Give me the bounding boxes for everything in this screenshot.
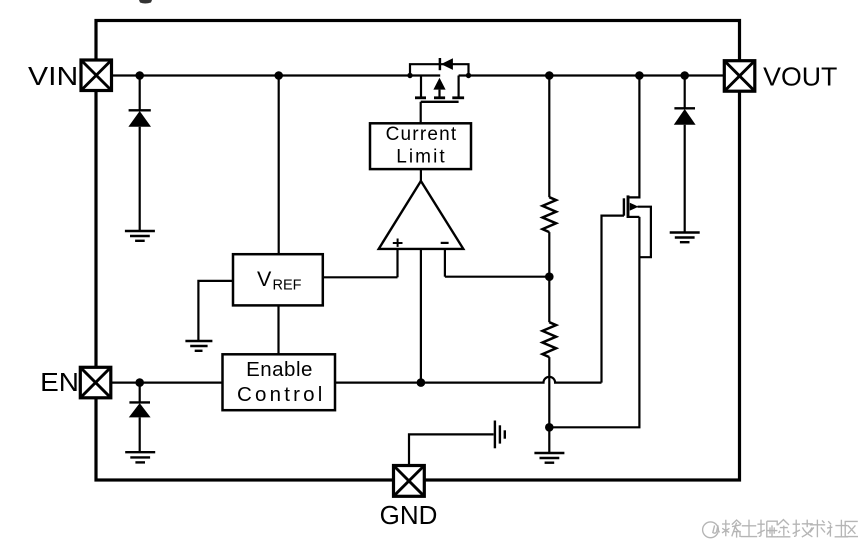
- svg-text:Control: Control: [237, 383, 326, 406]
- resistor R2 (lower feedback): [543, 322, 557, 357]
- svg-text:VOUT: VOUT: [763, 61, 837, 91]
- char 术: [810, 520, 825, 538]
- wire: divider bottom to ground: [548, 357, 550, 453]
- watermark @稀土掘金技术社区: [703, 520, 858, 538]
- node: EN-diode junction: [135, 378, 144, 387]
- pin VOUT (pad symbol): [724, 61, 755, 91]
- node: NMOS drain junction: [635, 71, 644, 80]
- diode D1 (VIN ESD): wire: [139, 76, 141, 111]
- wire: between resistors: [548, 232, 550, 322]
- wire: - input to feedback node: [445, 276, 549, 278]
- op-amp U2 (error amplifier): [379, 181, 464, 249]
- char 技: [793, 520, 813, 537]
- pin GND (pad symbol): [394, 466, 425, 497]
- block U3: VREF box: [233, 254, 323, 305]
- diode D2 triangle: [674, 109, 696, 125]
- char 稀: [722, 520, 741, 538]
- wire: divider top: [548, 76, 550, 198]
- transistor Q2 channel bar: [627, 195, 630, 218]
- svg-text:Limit: Limit: [396, 146, 447, 167]
- wire: op-amp - input: [444, 249, 446, 277]
- wire: Q2 body tie to source: [638, 207, 651, 258]
- char 区: [845, 521, 858, 536]
- transistor Q2 body arrow: [630, 203, 639, 211]
- node: divider-ground junction: [545, 423, 554, 432]
- char 掘: [757, 520, 778, 537]
- transistor Q1 source stub: [420, 76, 422, 97]
- diode D2 (VOUT ESD): wire: [684, 76, 686, 109]
- wire: EN pin to Enable Control: [111, 382, 223, 384]
- node: PMOS body-diode left junction: [407, 73, 412, 78]
- diode D3 cathode bar: [129, 401, 150, 403]
- wire: GND pin riser: [409, 434, 494, 465]
- diode D1 cathode bar: [129, 109, 151, 111]
- wire: bottom return (divider to NMOS source): [549, 217, 639, 427]
- diode D3 lower wire: [139, 417, 141, 452]
- diode D1 triangle: [128, 111, 151, 127]
- node: feedback node: [545, 272, 554, 281]
- diode D1 lower wire: [139, 127, 141, 231]
- transistor Q1 (PMOS pass device): body-diode loop: [410, 64, 469, 75]
- wire: VREF left to ground: [198, 281, 233, 341]
- diode D3 triangle: [129, 403, 151, 417]
- ground (EN diode): [125, 452, 155, 462]
- char 社: [827, 520, 848, 537]
- transistor Q1 gate plate: [421, 101, 459, 103]
- char 土: [741, 520, 758, 537]
- char 金: [777, 520, 790, 537]
- ground (VIN diode): [125, 231, 155, 241]
- ground (divider): [534, 453, 564, 463]
- transistor Q2 (NMOS): drain wire: [628, 76, 639, 198]
- wire: Current Limit to op-amp apex: [420, 169, 422, 182]
- svg-text:Enable: Enable: [246, 358, 313, 381]
- wire: VIN rail (left segment): [111, 74, 440, 76]
- node: VIN-diode junction: [135, 71, 144, 80]
- svg-text:V: V: [257, 267, 272, 291]
- ground (VREF): [185, 341, 212, 351]
- ground (VOUT diode): [670, 233, 700, 243]
- pin VIN (pad symbol): [81, 60, 112, 91]
- node: VOUT-diode junction: [680, 71, 689, 80]
- transistor Q1 channel contact bars: [415, 96, 464, 99]
- svg-text:GND: GND: [380, 500, 438, 530]
- block U1: Current Limit box: [370, 123, 471, 169]
- svg-text:Current: Current: [386, 124, 458, 145]
- svg-text:REF: REF: [273, 277, 302, 293]
- diode D3 (EN ESD): wire: [139, 383, 141, 402]
- node: enable/op-amp junction: [417, 378, 426, 387]
- wire: op-amp + input: [396, 249, 398, 277]
- wire: op-amp enable (center) down to enable line: [420, 249, 422, 383]
- node: PMOS body-diode right junction: [466, 73, 471, 78]
- node: VREF feed junction: [274, 71, 283, 80]
- diode D2 cathode bar: [674, 107, 695, 109]
- transistor Q1 substrate arrow: [433, 78, 445, 90]
- transistor Q2 source wire: [628, 216, 639, 218]
- wire: VREF feed (rail to VREF box): [278, 76, 280, 255]
- svg-text:EN: EN: [40, 369, 79, 397]
- wire: Enable line to NMOS gate (with hop): [335, 377, 602, 383]
- wire: VREF to Enable Control: [277, 305, 279, 354]
- chassis/return symbol (sideways ground): [495, 421, 505, 449]
- wire: VREF output to + input: [323, 276, 398, 278]
- diode D2 lower wire: [684, 125, 686, 233]
- node: divider-top junction: [545, 71, 554, 80]
- transistor Q1 drain stub: [458, 76, 460, 97]
- wire: VIN rail (right segment to VOUT): [459, 74, 725, 76]
- wire: Q1 gate to Current Limit: [420, 102, 422, 124]
- diode (Q1 body) cathode bar: [439, 58, 442, 70]
- resistor R1 (upper feedback): [543, 197, 557, 232]
- diode (Q1 body) triangle: [441, 58, 453, 70]
- IC boundary: [96, 21, 740, 481]
- cut-off title text fragment (top edge): [139, 0, 152, 4]
- svg-text:VIN: VIN: [28, 63, 78, 91]
- pin EN (pad symbol): [80, 367, 111, 398]
- block U4: Enable Control box: [223, 354, 336, 410]
- transistor Q2 gate bar: [623, 198, 625, 215]
